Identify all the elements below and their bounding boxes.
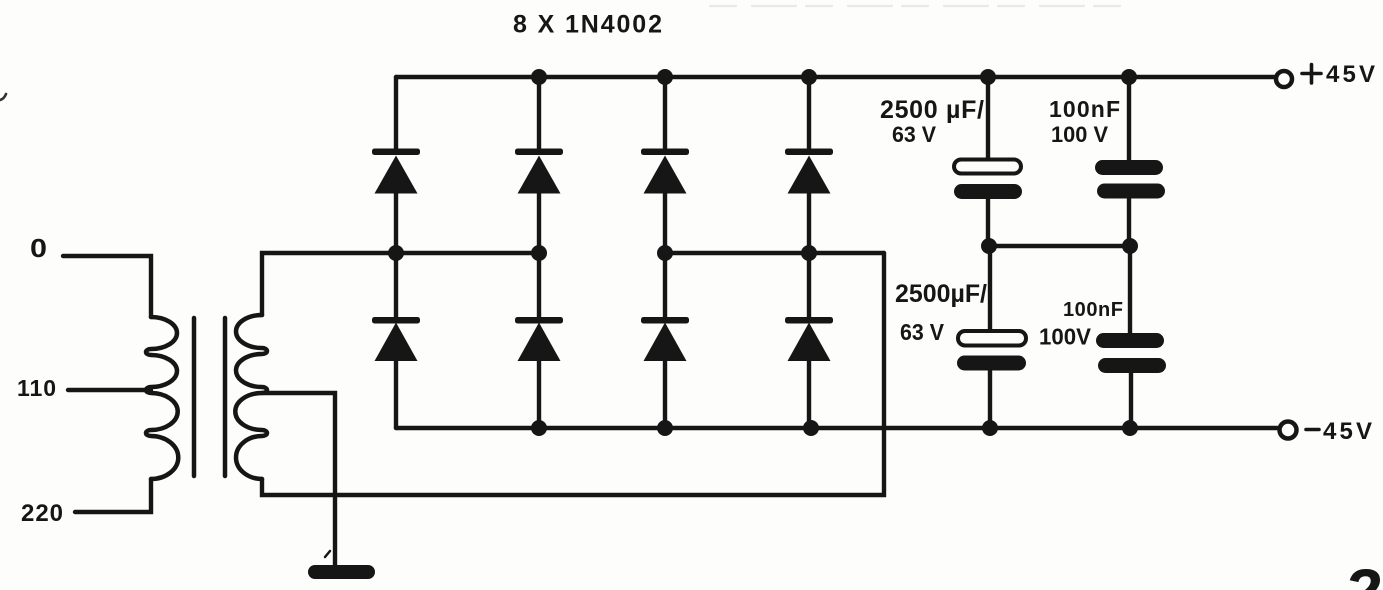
capacitor C3 100nF (1095, 160, 1165, 199)
capacitor C2 2500uF/63V (957, 331, 1026, 371)
scan artifact streak (710, 5, 1120, 7)
transformer T1 primary winding (146, 317, 178, 479)
junction dot bottom rail D3 (657, 420, 673, 436)
wire C3 leads (1127, 77, 1131, 246)
terminal -45V (1280, 422, 1297, 439)
diode D1 (372, 149, 420, 194)
wire secondary center tap to ground (262, 393, 335, 568)
svg-text:220: 220 (21, 500, 63, 527)
label C3 value (1049, 96, 1120, 147)
wire column D4/D8 (807, 77, 811, 428)
junction dot top rail D3 (657, 69, 673, 85)
junction dot mid rail D3 (657, 245, 673, 261)
label C1 value (880, 96, 984, 147)
junction dot top rail C1 (980, 69, 996, 85)
transformer T1 secondary winding (235, 315, 267, 479)
junction dot mid rail D4 (801, 245, 817, 261)
junction dot mid rail D2 (531, 245, 547, 261)
junction dot bottom rail D4 (803, 420, 819, 436)
ground (308, 565, 375, 579)
wire primary tap 0 (63, 256, 151, 317)
wire C1 leads (986, 77, 990, 246)
svg-text:45V: 45V (1323, 418, 1372, 445)
label C4 value (1039, 299, 1123, 350)
svg-text:100 V: 100 V (1051, 122, 1108, 147)
junction dot mid rail D1 (388, 245, 404, 261)
wire column D1/D5 (394, 77, 398, 428)
wire middle rail segment B (665, 251, 884, 255)
wire C4 leads (1130, 246, 1131, 428)
wire top +V rail (396, 75, 1274, 79)
junction dot bottom rail C4 (1122, 420, 1138, 436)
diode D2 (515, 149, 563, 194)
svg-text:100V: 100V (1039, 324, 1092, 350)
wire bottom -V rail (396, 426, 1277, 430)
wire middle rail segment A (262, 253, 539, 315)
wire primary tap 110 (68, 388, 151, 392)
capacitor C1 2500uF/63V (954, 160, 1022, 200)
junction dot bottom rail C2 (982, 420, 998, 436)
junction dot top rail C3 (1121, 69, 1137, 85)
wire secondary-bottom return (262, 253, 884, 495)
diode D4 (785, 149, 833, 194)
junction dot top rail D2 (531, 69, 547, 85)
wire column D2/D6 (537, 77, 541, 428)
svg-text:2: 2 (1342, 555, 1381, 590)
transformer T1 core (194, 318, 225, 476)
stray scan tick (325, 551, 330, 557)
junction dot bottom rail D2 (531, 420, 547, 436)
wire C2 leads (988, 246, 992, 428)
svg-text:8 X 1N4002: 8 X 1N4002 (513, 11, 662, 39)
junction dot cap mid right (1122, 238, 1138, 254)
diode D6 (515, 317, 563, 361)
svg-text:45V: 45V (1326, 61, 1375, 88)
wire capacitor mid link (989, 244, 1130, 248)
svg-text:100nF: 100nF (1063, 299, 1123, 321)
wire column D3/D7 (663, 77, 667, 428)
svg-text:110: 110 (17, 375, 56, 401)
junction dot top rail D4 (801, 69, 817, 85)
terminal +45V (1276, 71, 1292, 87)
diode D3 (641, 149, 689, 194)
svg-text:0: 0 (30, 233, 47, 263)
diode D7 (641, 317, 689, 361)
label C2 value (895, 280, 987, 345)
diode D8 (785, 317, 833, 361)
capacitor C4 100nF (1096, 333, 1166, 373)
svg-text:2500µF/: 2500µF/ (895, 280, 987, 308)
svg-text:63 V: 63 V (892, 122, 936, 147)
stray mark left edge (0, 94, 6, 100)
svg-text:2500 µF/: 2500 µF/ (880, 96, 984, 124)
svg-text:63 V: 63 V (900, 319, 945, 345)
wire primary tap 220 (75, 479, 151, 512)
svg-text:100nF: 100nF (1049, 96, 1120, 122)
junction dot cap mid left (981, 238, 997, 254)
diode D5 (372, 317, 420, 361)
label +45V (1302, 61, 1375, 88)
label -45V (1306, 418, 1372, 445)
